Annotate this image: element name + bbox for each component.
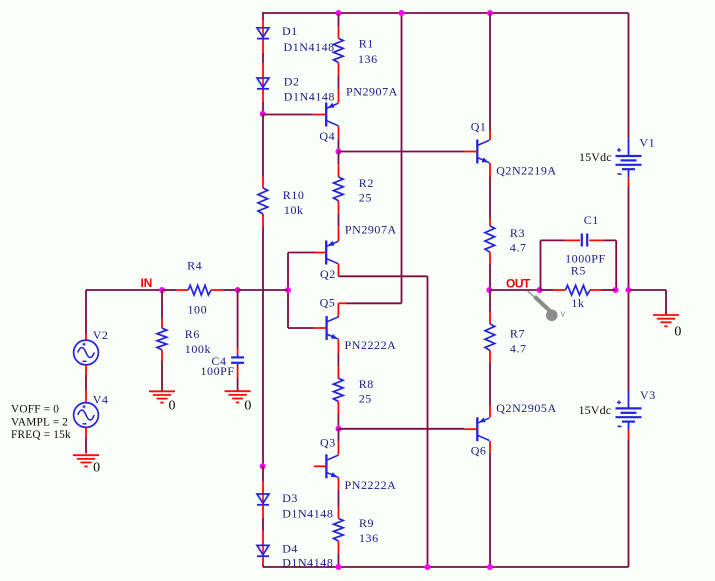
pin D2 cathode	[262, 90, 264, 102]
resistor R10	[258, 177, 268, 227]
wire node to R2	[338, 152, 340, 165]
svg-text:R10: R10	[283, 188, 305, 202]
wire C4 node to base bracket	[238, 289, 288, 291]
label IN	[141, 276, 153, 290]
label D1 value D1N4148	[284, 40, 335, 54]
svg-text:R1: R1	[359, 37, 374, 51]
wire node to Q4 base	[263, 114, 314, 116]
wire C1 left vertical	[540, 240, 542, 290]
wire D3 to D4	[262, 517, 264, 531]
resistor R5	[553, 285, 602, 295]
pin Q3 collector	[338, 442, 340, 455]
wire R5 left stub	[540, 289, 554, 291]
svg-text:D2: D2	[284, 75, 300, 89]
wire C1 left horizontal	[541, 239, 566, 241]
wire IN to R4	[162, 289, 176, 291]
label R5 value 1k	[571, 296, 584, 310]
junction IN / base bracket	[285, 287, 291, 293]
svg-text:D1: D1	[282, 24, 298, 38]
svg-text:PN2222A: PN2222A	[345, 338, 397, 352]
ground 0 (under R6)	[149, 391, 175, 402]
svg-text:V3: V3	[640, 388, 656, 402]
label R9	[359, 516, 374, 530]
pin Q5 collector	[338, 303, 346, 316]
wire Q3 emitter to R9	[338, 489, 340, 506]
svg-text:R2: R2	[359, 176, 374, 190]
junction R10/D3/Q3-base	[260, 463, 266, 469]
svg-text:R6: R6	[185, 327, 200, 341]
svg-text:0: 0	[244, 399, 252, 414]
wire Q2 collector vertical to bottom rail	[427, 276, 429, 567]
pin D1 anode	[262, 20, 264, 28]
label V4 VAMPL	[11, 417, 68, 429]
label R3	[510, 226, 525, 240]
svg-text:Q1: Q1	[471, 119, 487, 133]
svg-text:D4: D4	[282, 541, 298, 555]
wire Q5 emitter to R8	[337, 353, 339, 367]
svg-text:136: 136	[358, 52, 378, 66]
transistor Q4 (PN2907A PNP)	[314, 103, 339, 127]
svg-text:Q2N2219A: Q2N2219A	[496, 164, 556, 178]
svg-text:R5: R5	[571, 263, 586, 277]
svg-text:PN2907A: PN2907A	[346, 85, 398, 99]
label Q1	[471, 119, 487, 133]
wire R9 to bottom rail	[338, 553, 340, 567]
wire Q1 emitter to R3	[489, 177, 491, 219]
resistor R8	[333, 367, 343, 414]
source V2 (VSIN)	[74, 340, 99, 365]
label Q3	[320, 435, 336, 449]
ground 0 (under V4)	[73, 455, 99, 466]
wire IN down to R6	[161, 290, 163, 319]
transistor Q2 (PN2907A PNP)	[314, 241, 339, 265]
label Q5 value PN2222A	[345, 338, 397, 352]
label C1 value 1000PF	[565, 252, 606, 266]
label V3 value 15Vdc	[579, 403, 612, 417]
wire node to Q1 base	[339, 151, 465, 153]
wire bottom rail	[263, 566, 629, 568]
junction R8/Q3/Q6-base	[336, 426, 342, 432]
pin V2 plus	[85, 334, 87, 340]
pin Q5 emitter	[337, 340, 339, 353]
wire right ground vertical	[665, 290, 667, 315]
diode D1	[257, 28, 269, 39]
svg-text:100PF: 100PF	[201, 364, 235, 378]
wire rail to right ground	[629, 289, 667, 291]
wire right rail upper (to V1)	[628, 13, 630, 138]
source V4 (VSIN)	[74, 403, 99, 428]
wire C1 right horizontal	[603, 239, 616, 241]
svg-text:Q6: Q6	[471, 444, 487, 458]
svg-text:15Vdc: 15Vdc	[579, 150, 612, 164]
svg-text:0: 0	[674, 324, 682, 339]
junction top rail / Q1	[487, 10, 493, 16]
wire C4 node down	[237, 290, 239, 348]
svg-text:4.7: 4.7	[510, 241, 527, 255]
wire base bracket lower	[288, 327, 314, 329]
label C4	[211, 354, 226, 368]
label Q4 value PN2907A	[346, 85, 398, 99]
svg-text:VOFF = 0: VOFF = 0	[11, 403, 59, 415]
label V4	[93, 392, 109, 406]
battery V1 (15Vdc)	[616, 138, 642, 186]
junction top rail / Q5 branch	[399, 10, 405, 16]
capacitor C1	[565, 234, 603, 247]
svg-text:V2: V2	[93, 328, 109, 342]
label Q1 value Q2N2219A	[496, 164, 556, 178]
label R7 value 4.7	[510, 341, 527, 355]
wire D1 to D2	[262, 53, 264, 64]
label D2	[284, 75, 300, 89]
junction R4/C4	[235, 287, 241, 293]
svg-text:R8: R8	[359, 377, 374, 391]
pin D4 anode	[262, 531, 264, 545]
label OUT	[506, 276, 531, 290]
label R10 value 10k	[284, 203, 304, 217]
svg-text:D3: D3	[282, 491, 298, 505]
pin Q1 emitter	[489, 163, 491, 177]
wire V3 to bottom rail	[628, 440, 630, 567]
junction Q4/R2/Q1-base	[336, 149, 342, 155]
svg-text:R4: R4	[187, 259, 202, 273]
wire R7 to Q6 emitter	[489, 363, 491, 406]
resistor R9	[334, 507, 344, 554]
label D1	[282, 24, 298, 38]
svg-text:10k: 10k	[284, 203, 304, 217]
wire OUT down to R7	[489, 290, 491, 312]
resistor R7	[485, 312, 495, 364]
svg-text:R3: R3	[510, 226, 525, 240]
label V2	[93, 328, 109, 342]
wire base bracket vertical	[287, 253, 289, 329]
wire C4 to ground	[237, 378, 239, 392]
label 0 (C4 ground)	[244, 399, 252, 414]
wire V2 to V4	[85, 375, 87, 391]
label V3	[640, 388, 656, 402]
battery V3 (15Vdc)	[616, 392, 642, 440]
pin Q1 collector	[489, 131, 491, 141]
label 0 (right ground)	[674, 324, 682, 339]
pin Q6 emitter	[489, 406, 491, 418]
label R1	[359, 37, 374, 51]
junction C1/R5 left	[537, 287, 543, 293]
svg-text:100k: 100k	[185, 342, 211, 356]
wire R1 to Q4 emitter	[338, 76, 340, 90]
wire R2 to Q2 emitter	[338, 213, 340, 226]
voltage probe marker at OUT	[528, 291, 566, 321]
pin V2 minus	[85, 365, 87, 375]
resistor R1	[334, 27, 344, 76]
label Q3 value PN2222A	[345, 478, 397, 492]
wire R8 to node	[337, 414, 339, 429]
svg-text:136: 136	[359, 531, 379, 545]
svg-text:0: 0	[93, 461, 101, 476]
pin Q4 emitter	[338, 89, 340, 103]
label D2 value D1N4148	[284, 89, 335, 103]
svg-text:D1N4148: D1N4148	[282, 506, 333, 520]
svg-text:Q5: Q5	[320, 295, 336, 309]
pin V4 plus	[85, 391, 87, 403]
wire R4 to C4 node	[224, 289, 238, 291]
svg-text:PN2222A: PN2222A	[345, 478, 397, 492]
wire Q4 collector to node	[338, 139, 340, 152]
label Q2	[320, 267, 336, 281]
label R2	[359, 176, 374, 190]
pin Q3 emitter	[338, 478, 340, 490]
svg-text:15Vdc: 15Vdc	[579, 403, 612, 417]
wire R6 to ground	[161, 361, 163, 392]
wire D4 to bottom rail	[262, 565, 264, 567]
label V4 VOFF	[11, 403, 59, 415]
ground 0 (under C4)	[225, 391, 251, 402]
wire top rail	[263, 12, 629, 14]
wire Q2 collector horizontal	[339, 275, 428, 277]
transistor Q5 (PN2222A NPN)	[314, 316, 339, 340]
svg-text:Q2: Q2	[320, 267, 336, 281]
svg-text:100: 100	[188, 303, 208, 317]
svg-text:0: 0	[169, 399, 177, 414]
label R3 value 4.7	[510, 241, 527, 255]
label D3 value D1N4148	[282, 506, 333, 520]
junction OUT rail / R5	[626, 287, 632, 293]
pin Q2 collector	[338, 264, 340, 276]
wire node to D3	[262, 466, 264, 481]
wire node to Q6 base	[339, 428, 465, 430]
wire base bracket upper	[288, 252, 314, 254]
wire D2 to node	[262, 102, 264, 114]
svg-text:Q3: Q3	[320, 435, 336, 449]
resistor R6	[157, 319, 167, 361]
label R4 value 100	[188, 303, 208, 317]
pin D1 cathode	[262, 39, 264, 52]
label R10	[283, 188, 305, 202]
svg-text:D1N4148: D1N4148	[284, 89, 335, 103]
transistor Q3 (PN2222A NPN)	[314, 454, 339, 478]
junction bottom rail / Q6	[487, 564, 493, 570]
transistor Q6 (Q2N2905A PNP)	[465, 417, 490, 441]
svg-text:Q2N2905A: Q2N2905A	[496, 401, 556, 415]
label C1	[584, 213, 599, 227]
svg-text:v: v	[561, 309, 566, 319]
resistor R2	[334, 164, 344, 213]
label R6 value 100k	[185, 342, 211, 356]
label V1	[639, 136, 655, 150]
wire left column top stub	[262, 12, 264, 19]
label Q6	[471, 444, 487, 458]
junction bottom rail / R9	[336, 564, 342, 570]
diode D4	[257, 545, 269, 556]
label D4	[282, 541, 298, 555]
wire OUT to C1 branch	[489, 289, 539, 291]
wire node to Q3 collector	[338, 429, 340, 442]
svg-text:V1: V1	[639, 136, 655, 150]
pin D2 anode	[262, 63, 264, 77]
label V1 value 15Vdc	[579, 150, 612, 164]
label R6	[185, 327, 200, 341]
label R7	[510, 327, 525, 341]
label 0 (V4 ground)	[93, 461, 101, 476]
wire R3 to OUT	[489, 265, 491, 291]
wire OUT rail to V3	[628, 290, 630, 392]
svg-text:D1N4148: D1N4148	[284, 40, 335, 54]
label R8	[359, 377, 374, 391]
pin D4 cathode	[262, 557, 264, 565]
label V4 FREQ	[11, 429, 71, 441]
svg-text:C1: C1	[584, 213, 599, 227]
wire C1 right vertical	[615, 240, 617, 290]
label Q2 value PN2907A	[345, 222, 397, 236]
svg-text:4.7: 4.7	[510, 341, 527, 355]
wire Q5 collector to top rail vertical	[401, 13, 403, 303]
svg-text:IN: IN	[141, 276, 153, 290]
svg-text:D1N4148: D1N4148	[282, 555, 333, 569]
svg-text:25: 25	[359, 191, 372, 205]
svg-text:FREQ = 15k: FREQ = 15k	[11, 429, 71, 441]
label D4 value D1N4148	[282, 555, 333, 569]
label R4	[187, 259, 202, 273]
pin Q6 collector	[489, 441, 491, 453]
label D3	[282, 491, 298, 505]
label R9 value 136	[359, 531, 379, 545]
label R1 value 136	[358, 52, 378, 66]
wire R5 right stub	[602, 289, 616, 291]
wire V4 to ground	[85, 437, 87, 453]
pin Q4 collector	[338, 126, 340, 139]
wire top rail to Q1 collector	[489, 13, 491, 131]
label R5	[571, 263, 586, 277]
junction top rail / R1	[336, 10, 342, 16]
resistor R4	[176, 285, 224, 295]
svg-text:R7: R7	[510, 327, 525, 341]
label R8 value 25	[359, 392, 372, 406]
wire V1 to OUT rail	[628, 187, 630, 291]
pin D3 cathode	[262, 505, 264, 518]
junction bottom rail / Q2 branch	[425, 564, 431, 570]
svg-text:25: 25	[359, 392, 372, 406]
wire R10 to Q3-base node	[262, 227, 264, 467]
pin Q2 emitter	[338, 226, 340, 241]
wire Q5 collector to top rail horizontal	[346, 302, 402, 304]
svg-text:V4: V4	[93, 392, 109, 406]
ground 0 (right)	[653, 315, 679, 326]
svg-text:1k: 1k	[571, 296, 584, 310]
label R2 value 25	[359, 191, 372, 205]
wire IN corner down to V2	[85, 290, 87, 334]
label Q4	[319, 129, 335, 143]
label C4 value 100PF	[201, 364, 235, 378]
svg-text:Q4: Q4	[319, 129, 335, 143]
svg-text:PN2907A: PN2907A	[345, 222, 397, 236]
wire top rail to R1	[338, 13, 340, 27]
svg-text:R9: R9	[359, 516, 374, 530]
diode D2	[257, 78, 269, 89]
wire node to R10	[262, 114, 264, 177]
junction C1/R5 right	[613, 287, 619, 293]
label 0 (R6 ground)	[169, 399, 177, 414]
svg-text:VAMPL = 2: VAMPL = 2	[11, 417, 68, 429]
junction IN/R6/R4	[159, 287, 165, 293]
pin V4 minus	[85, 427, 87, 437]
label Q6 value Q2N2905A	[496, 401, 556, 415]
wire Q6 collector to bottom rail	[489, 453, 491, 567]
resistor R3	[485, 219, 495, 265]
label Q5	[320, 295, 336, 309]
junction OUT node	[486, 287, 492, 293]
pin D3 anode	[262, 481, 264, 494]
junction D2/R10/Q4-base	[260, 111, 266, 117]
wire V2 to IN corner	[86, 289, 162, 291]
transistor Q1 (Q2N2219A NPN)	[465, 140, 490, 164]
svg-text:OUT: OUT	[506, 276, 531, 290]
capacitor C4	[231, 348, 244, 378]
diode D3	[257, 494, 269, 505]
